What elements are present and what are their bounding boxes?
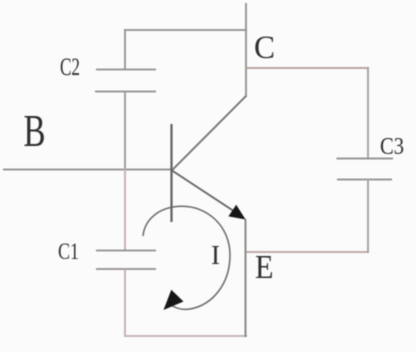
wire: emitter horizontal to C3 branch [246, 251, 368, 253]
wire: bottom horizontal rail [124, 335, 247, 337]
current loop arc [143, 206, 230, 309]
svg-text:B: B [24, 105, 46, 156]
wire: left vertical, C2 down to base junction [124, 91, 126, 170]
capacitor C1 top plate [96, 250, 156, 252]
transistor Q1 emitter lead [172, 171, 239, 215]
wire: right vertical, C3 down to emitter rail [367, 179, 369, 253]
wire: base lead [3, 169, 172, 171]
capacitor C1 bottom plate [96, 268, 156, 270]
wire: emitter vertical [245, 219, 247, 337]
wire: top horizontal from C2 branch to collector [124, 29, 247, 31]
svg-text:C1: C1 [58, 239, 79, 264]
svg-text:E: E [255, 249, 274, 286]
transistor Q1 base bar [170, 124, 172, 222]
wire: collector horizontal to C3 branch [246, 67, 369, 69]
svg-text:C2: C2 [60, 54, 80, 81]
capacitor C3 bottom plate [337, 179, 392, 181]
wire: collector top vertical [245, 3, 247, 97]
capacitor C2 top plate [96, 69, 156, 71]
wire: right vertical, down to C3 [367, 67, 369, 159]
wire: left vertical, base junction down to C1 [124, 168, 126, 251]
capacitor C2 bottom plate [95, 91, 156, 93]
capacitor C3 top plate [337, 158, 394, 160]
wire: left vertical, C1 down to bottom rail [124, 269, 126, 337]
transistor Q1 emitter arrowhead [228, 205, 245, 220]
wire: left vertical, top corner down to C2 [124, 29, 126, 70]
svg-text:C: C [254, 30, 275, 66]
transistor Q1 collector lead [172, 96, 246, 170]
svg-text:I: I [211, 240, 220, 270]
current loop arrowhead [164, 290, 184, 310]
svg-text:C3: C3 [380, 134, 404, 160]
